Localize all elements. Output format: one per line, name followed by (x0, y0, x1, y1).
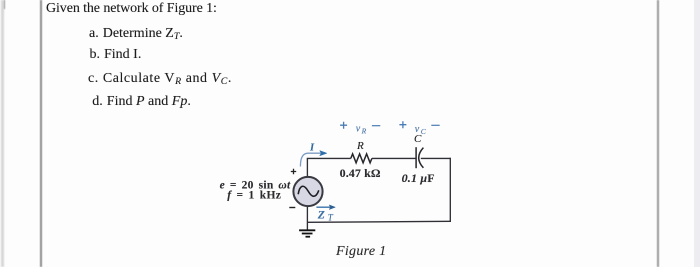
wire: top rail right segment (capacitor to right corner) (421, 157, 451, 159)
svg-text:v: v (356, 124, 361, 135)
wire: top rail middle segment (resistor to capacitor) (372, 157, 416, 159)
wire: bottom rail (307, 221, 451, 222)
left page-edge shading strip (1, 0, 4, 267)
svg-text:R: R (356, 140, 364, 152)
resistor R zigzag (351, 154, 372, 163)
problem statement text (46, 2, 217, 16)
svg-text:f = 1 kHz: f = 1 kHz (227, 189, 281, 201)
svg-text:I: I (309, 143, 315, 154)
impedance ZT arrow (blue) (316, 206, 330, 208)
svg-text:R: R (361, 127, 367, 136)
vC polarity label (blue) (399, 121, 406, 128)
ac source E circle (293, 177, 322, 206)
svg-text:0.47 kΩ: 0.47 kΩ (340, 166, 381, 180)
wire: right vertical rail (449, 158, 451, 222)
ac source sine wave (298, 186, 319, 196)
capacitor C right plate (curved) (419, 148, 424, 168)
wire: top rail left segment (corner to resistor) (307, 157, 351, 159)
wire: source bottom stub to ground (306, 206, 308, 230)
left vertical rule (40, 0, 41, 267)
figure caption (336, 245, 386, 259)
source + polarity mark (291, 169, 296, 174)
current I arrow (blue) (300, 153, 321, 166)
svg-text:Z: Z (317, 209, 325, 221)
source - polarity mark (289, 207, 295, 209)
small dark tick top-left (4, 0, 5, 9)
vR polarity label (blue) (340, 122, 347, 129)
svg-text:0.1 μF: 0.1 μF (402, 171, 435, 185)
capacitor C left plate (straight) (415, 147, 417, 168)
right vertical rule (657, 0, 659, 267)
right page-edge gray panel (694, 0, 700, 267)
wire: top-left vertical segment from source to top rail (306, 158, 308, 177)
svg-text:T: T (328, 212, 334, 222)
svg-text:C: C (421, 127, 427, 136)
ground symbol (299, 229, 315, 231)
svg-text:v: v (415, 124, 420, 135)
